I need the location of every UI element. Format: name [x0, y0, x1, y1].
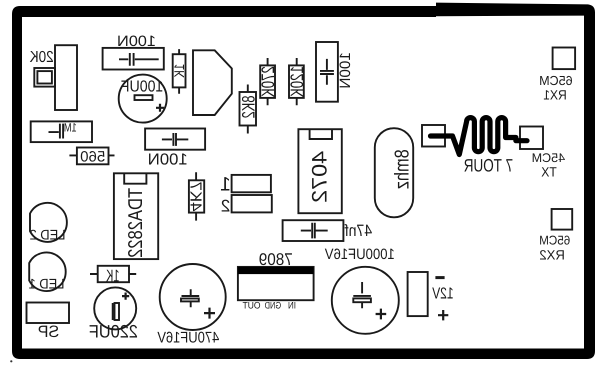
svg-text:47nf: 47nf	[344, 222, 372, 240]
transistor Q1 outline	[193, 50, 232, 115]
svg-text:IN: IN	[288, 300, 296, 311]
svg-text:100UF: 100UF	[121, 78, 164, 95]
crystal X1 8mhz body	[375, 128, 413, 217]
svg-text:220UF: 220UF	[89, 322, 138, 342]
svg-text:8K2: 8K2	[238, 96, 258, 119]
svg-text:TDA2822: TDA2822	[125, 188, 147, 258]
regulator U3 7809 body	[238, 267, 314, 300]
svg-text:120K: 120K	[287, 66, 307, 97]
IC U2 4072 body	[298, 129, 341, 213]
capacitor C 100N (middle) symbol	[162, 133, 188, 146]
IC U2 4072 notch	[310, 129, 332, 139]
capacitor C 47NF symbol	[301, 223, 328, 239]
IC U1 TDA2822 notch	[124, 173, 146, 183]
svg-text:45CM: 45CM	[532, 151, 566, 165]
svg-text:RX2: RX2	[539, 247, 565, 262]
svg-text:2: 2	[221, 197, 230, 216]
resistor R 4K7	[189, 180, 204, 212]
pad 65CM RX2	[552, 209, 573, 230]
coil L1 7 TOUR meander	[431, 118, 528, 155]
capacitor C 1M symbol	[49, 124, 64, 139]
capacitor C 220UF stripe	[112, 303, 114, 320]
plus 12V	[438, 310, 448, 320]
plus 220UF	[122, 293, 129, 300]
resistor R 120K	[289, 65, 304, 98]
connector 12V body	[408, 272, 428, 316]
IC U1 TDA2822 body	[114, 173, 158, 259]
svg-text:1M: 1M	[64, 120, 77, 134]
speaker connector SP	[27, 303, 70, 324]
capacitor C 100N (vertical) body	[316, 42, 338, 102]
svg-text:8mhz: 8mhz	[392, 149, 414, 189]
svg-text:1K: 1K	[106, 267, 120, 286]
coil L1 pad right	[520, 127, 543, 150]
svg-text:560: 560	[80, 148, 105, 165]
svg-text:7 TOUR: 7 TOUR	[464, 155, 514, 175]
svg-text:100N: 100N	[148, 152, 188, 169]
svg-text:GND: GND	[265, 300, 282, 311]
trimpot P1 20K body	[55, 45, 77, 110]
capacitor C 470UF body	[160, 264, 226, 330]
svg-text:OUT: OUT	[242, 300, 260, 311]
coil L1 pad left	[422, 125, 445, 147]
capacitor C 100N (vertical) symbol	[320, 59, 334, 85]
capacitor C 1M body	[31, 121, 92, 142]
plus 1000UF	[376, 309, 387, 320]
svg-text:470UF16V: 470UF16V	[157, 330, 220, 347]
svg-text:100N: 100N	[337, 52, 354, 89]
plus 100UF	[156, 104, 164, 112]
svg-text:TX: TX	[541, 165, 557, 180]
capacitor C 100UF body	[119, 75, 167, 123]
svg-text:1: 1	[220, 174, 231, 196]
svg-text:7809: 7809	[259, 250, 293, 269]
svg-text:20K: 20K	[29, 49, 53, 66]
svg-text:LED 1: LED 1	[28, 276, 64, 292]
capacitor C 100N (top) symbol	[119, 53, 159, 66]
minus 12V	[435, 276, 444, 279]
capacitor C 100N (top) body	[103, 48, 164, 70]
svg-text:65CM: 65CM	[539, 73, 573, 88]
resistor R 270K	[260, 65, 275, 98]
svg-text:SP: SP	[38, 323, 60, 341]
connector pad 1	[232, 175, 271, 192]
pad 65CM RX1	[553, 48, 576, 70]
regulator U3 7809 tab	[238, 267, 314, 274]
resistor R 1K (bottom)	[98, 266, 129, 282]
svg-text:100N: 100N	[117, 33, 156, 50]
capacitor C 1000UF symbol	[353, 282, 371, 308]
capacitor C 220UF body	[94, 287, 136, 329]
trimpot P1 20K wiper square	[34, 68, 55, 87]
svg-text:65CM: 65CM	[539, 234, 570, 248]
capacitor C 100UF stripe	[135, 95, 153, 100]
capacitor C 100N (middle) body	[145, 129, 205, 150]
svg-text:LED 2: LED 2	[29, 226, 65, 242]
svg-text:RX1: RX1	[543, 88, 567, 103]
capacitor C 470UF symbol	[182, 289, 200, 307]
svg-text:4K7: 4K7	[187, 181, 204, 211]
svg-text:1K: 1K	[171, 64, 187, 79]
svg-text:12V: 12V	[432, 286, 454, 303]
plus 470UF	[204, 308, 215, 319]
resistor R 8K2	[240, 92, 257, 126]
svg-text:270K: 270K	[258, 66, 278, 97]
capacitor C 1000UF body	[332, 267, 399, 334]
svg-text:4072: 4072	[308, 151, 331, 203]
resistor R 560	[77, 148, 109, 165]
scan speck bottom-left	[10, 360, 12, 362]
capacitor C 47NF body	[283, 220, 344, 241]
plus/minus marks	[122, 104, 448, 321]
resistor R 1K (top)	[173, 54, 186, 87]
LED 1 body	[29, 252, 66, 291]
LED 2 body	[30, 203, 67, 242]
svg-text:1000UF16V: 1000UF16V	[325, 246, 395, 263]
connector pad 2	[232, 195, 272, 212]
